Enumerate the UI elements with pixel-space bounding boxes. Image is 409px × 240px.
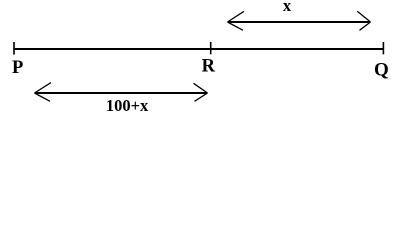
svg-text:100+x: 100+x bbox=[106, 96, 149, 115]
svg-text:P: P bbox=[12, 58, 23, 78]
svg-text:Q: Q bbox=[374, 60, 389, 81]
svg-text:x: x bbox=[283, 0, 292, 15]
svg-text:R: R bbox=[202, 57, 216, 77]
